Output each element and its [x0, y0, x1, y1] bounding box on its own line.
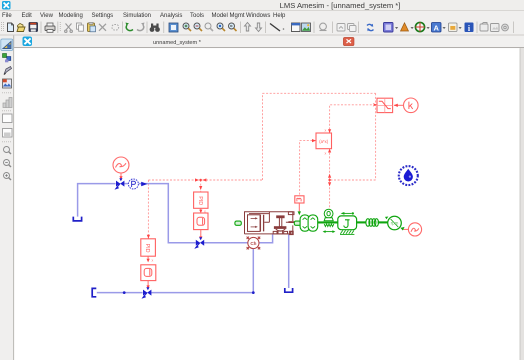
wire: fx left down to m box (dashed) — [300, 141, 316, 196]
arrowhead into fx top — [328, 129, 331, 133]
icon: arrow down (outline) — [256, 23, 262, 32]
chamber Ch — [247, 237, 261, 250]
shaft motor to load — [318, 221, 338, 223]
svg-text:unnamed_system *: unnamed_system * — [153, 40, 202, 46]
signal source U1: piecewise linear circle — [113, 157, 129, 173]
sidebar: pencil icon — [4, 67, 12, 75]
toolbar grip — [2, 22, 4, 32]
tank T1 — [73, 217, 81, 221]
sidebar: rect icon 1 — [3, 114, 13, 123]
svg-text:Modeling: Modeling — [59, 13, 83, 19]
svg-text:Edit: Edit — [22, 13, 33, 19]
svg-text:LMS Amesim - [unnamed_system *: LMS Amesim - [unnamed_system *] — [280, 1, 401, 10]
icon: print — [45, 23, 55, 32]
throttle valve V2 — [194, 237, 204, 249]
wire: branch down to PID1 (dashed) — [200, 180, 202, 192]
PID box B3 — [141, 239, 156, 256]
junction dot bottom-left — [123, 291, 126, 294]
rotary velocity source rpm — [388, 216, 402, 230]
icon: window — [292, 23, 301, 32]
connector B4 to throttle V3 — [147, 281, 149, 288]
separator — [313, 22, 315, 34]
separator — [358, 22, 360, 34]
connector m box to motor (arrow green) — [298, 203, 300, 212]
wire: V1 to P sensor — [124, 183, 128, 185]
wire: signal P-junction to right corner (dashed) — [148, 179, 262, 181]
wire: Q junction up to fx box bottom (dashed) — [329, 149, 331, 180]
arrowhead into PID2 top — [147, 235, 150, 239]
separator — [146, 22, 148, 34]
svg-text:Windows: Windows — [246, 13, 270, 19]
servovalve left chamber — [248, 215, 261, 232]
svg-text:Settings: Settings — [92, 13, 114, 19]
throttle valve V1 — [114, 178, 124, 190]
flow direction arrow after P — [141, 182, 147, 187]
wire: V2 to Ch chamber — [204, 242, 248, 244]
connector U2 to rpm source — [403, 228, 409, 230]
icon: gray gear — [502, 24, 509, 31]
tank T3 — [285, 288, 293, 292]
junction node at PID1 branch — [200, 179, 202, 181]
connector B3 to B4 with arrow — [147, 256, 149, 260]
servovalve port left (green) — [235, 221, 241, 225]
icon: open folder — [17, 24, 25, 32]
svg-text:PID: PID — [197, 196, 203, 205]
sidebar: sketch mode button (selected) — [1, 39, 13, 51]
sidebar separator — [2, 92, 12, 94]
transducer box B2 (signal to displacement) — [194, 213, 208, 230]
icon: cone orange — [401, 23, 409, 31]
sidebar: steps icon (disabled) — [3, 98, 12, 108]
icon: zoom selection blue — [169, 23, 178, 32]
wire: Ch bottom down to tank line — [252, 249, 254, 293]
svg-text:Ch: Ch — [250, 241, 256, 246]
servovalve flapper I-beam — [277, 216, 284, 218]
shaft load to spring — [357, 221, 366, 223]
hydraulic motor M1 — [300, 215, 318, 231]
svg-text:x: x — [325, 152, 327, 156]
icon: delete X (disabled) — [99, 24, 106, 31]
toolbar background — [0, 19, 524, 35]
PID box B1 — [194, 192, 208, 208]
separator — [122, 22, 124, 34]
wire: P junction down to PID2 (dashed) — [147, 180, 149, 239]
title bar — [0, 0, 524, 11]
sidebar separator — [2, 110, 12, 112]
servovalve chamber arrows — [251, 217, 256, 219]
left sidebar — [0, 36, 14, 360]
separator — [57, 22, 59, 34]
icon: component purple — [384, 23, 394, 33]
separator — [332, 22, 334, 34]
icon: A-doc blue — [432, 23, 442, 33]
separator — [476, 22, 478, 34]
icon: copy (disabled) — [77, 23, 84, 31]
icon: find binoculars — [150, 24, 160, 32]
pressure sensor P — [128, 179, 138, 189]
junction node at Q branch — [328, 179, 330, 181]
function box fx — [316, 133, 332, 149]
rotary damper under shaft — [324, 224, 334, 232]
icon: zoom prev — [229, 23, 237, 31]
tab bar — [0, 36, 524, 48]
tank T2 — [92, 288, 96, 296]
throttle valve V3 — [141, 287, 151, 299]
sidebar: rect icon 2 — [3, 129, 13, 138]
icon: cut scissors (disabled) — [65, 24, 73, 33]
svg-text:rpm: rpm — [391, 221, 399, 226]
svg-text:(a*x): (a*x) — [319, 139, 328, 144]
separator — [240, 22, 242, 34]
icon: validate (disabled circle) — [320, 23, 327, 30]
separator — [163, 22, 165, 34]
wire: bottom tank line — [97, 292, 143, 294]
wire: top horizontal to saturation branch (dashed) — [263, 92, 376, 94]
wire: lower horizontal to Q junction (dashed) — [330, 179, 376, 181]
icon: zoom out — [194, 23, 202, 31]
arrowhead into fx left — [312, 139, 316, 142]
arrowhead into saturation box left — [373, 103, 377, 106]
connector source to throttle V1 — [120, 173, 122, 178]
junction dot bottom-right — [252, 291, 255, 294]
wire: tank T1 riser and main supply line — [78, 184, 116, 217]
icon: gray tool 2 — [491, 24, 500, 32]
icon: paste — [88, 23, 96, 32]
svg-text:Help: Help — [273, 13, 286, 19]
separator — [265, 22, 267, 34]
wire: fx top riser to saturation input (dashed) — [330, 105, 377, 133]
servovalve right stubs — [288, 212, 294, 215]
tab close button — [343, 37, 354, 45]
servovalve outer body — [245, 212, 293, 234]
wire: saturation branch descending (dashed) — [375, 93, 377, 180]
icon: globe — [415, 22, 424, 31]
svg-text:Tools: Tools — [190, 13, 204, 19]
icon: line tool — [270, 24, 280, 32]
torque sensor Q — [324, 209, 333, 220]
connector B2 to throttle V2 — [200, 230, 202, 239]
connector B1 to B2 with arrow — [200, 208, 202, 211]
arrowhead into fx bottom — [328, 149, 331, 153]
svg-text:View: View — [40, 13, 54, 19]
right scroll strip — [520, 48, 524, 360]
svg-text:x: x — [152, 259, 154, 263]
icon: picture — [302, 23, 311, 32]
constant source k circle — [404, 98, 419, 113]
sidebar: zoom icon 2 — [4, 160, 12, 168]
icon: info — [465, 23, 474, 33]
wire: servovalve to tank T3 — [288, 234, 290, 288]
servovalve port right (green) — [294, 221, 300, 225]
servovalve spool piston — [260, 215, 263, 232]
servovalve seat blocks — [273, 231, 277, 234]
icon: prune (disabled) — [112, 25, 119, 31]
wire: Q junction down to flow sensor (dashed) — [329, 180, 331, 209]
sidebar: image icon — [3, 79, 12, 88]
saturation box — [377, 98, 393, 112]
icon: new document — [8, 23, 14, 32]
icon: zoom fit — [217, 23, 225, 31]
sidebar separator — [2, 141, 12, 143]
icon: gray rect 1 (disabled) — [337, 24, 345, 32]
rotary load J — [338, 216, 357, 230]
wire: P sensor to right corner, down, to V2 — [138, 184, 195, 243]
icon: save floppy — [29, 23, 38, 32]
app icon (blue X) — [2, 1, 11, 10]
connector k to saturation with arrow — [394, 104, 404, 106]
svg-text:A: A — [433, 24, 439, 33]
sidebar: zoom icon 1 — [4, 147, 12, 155]
signal source U2: piecewise linear circle right — [408, 223, 421, 236]
icon: redo — [137, 25, 144, 31]
svg-text:Analysis: Analysis — [160, 13, 182, 19]
icon: zoom in — [183, 23, 191, 31]
m source box — [295, 196, 304, 203]
tab sheet icon (blue X) — [23, 37, 33, 47]
svg-text:x: x — [325, 129, 327, 133]
icon: arrow up (outline) — [245, 23, 251, 32]
load friction base — [340, 230, 354, 234]
menu bar — [2, 13, 286, 19]
svg-text:File: File — [2, 13, 12, 19]
separator — [513, 22, 515, 34]
wire: right corner rising (dashed) — [262, 93, 264, 180]
load top arrow — [343, 212, 352, 214]
icon: export box orange — [449, 23, 458, 32]
wire: Ch to servovalve pilot riser — [259, 234, 272, 243]
separator — [40, 22, 42, 34]
svg-text:Simulation: Simulation — [123, 13, 151, 19]
svg-text:Model Mgmt: Model Mgmt — [212, 13, 245, 19]
sidebar: zoom icon 3 — [4, 173, 12, 181]
icon: gray rect 2 (disabled) — [348, 24, 357, 32]
shaft spring to rpm source — [378, 221, 388, 223]
icon: gray tool 1 — [480, 23, 488, 32]
icon: refresh blue — [367, 24, 374, 30]
servovalve nozzle arc — [276, 229, 285, 231]
svg-text:PID: PID — [144, 244, 150, 253]
icon: zoom gray (disabled) — [205, 23, 213, 31]
servovalve mid pipes — [264, 212, 293, 223]
sidebar: components icon — [3, 54, 11, 63]
transducer box B4 — [141, 265, 156, 281]
icon: undo — [126, 25, 133, 31]
torsion spring — [366, 219, 379, 227]
